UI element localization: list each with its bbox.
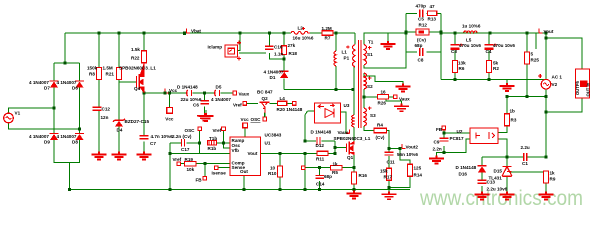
resistor R5 xyxy=(331,166,343,170)
svg-text:C1: C1 xyxy=(522,161,528,166)
optocoupler U2 xyxy=(470,128,498,144)
wire S2 top to ground xyxy=(364,73,403,84)
wire gate net vertical xyxy=(305,141,335,190)
svg-text:R4: R4 xyxy=(377,123,383,128)
svg-text:16: 16 xyxy=(381,90,387,95)
capacitor C16 xyxy=(265,46,274,49)
svg-text:D5: D5 xyxy=(216,85,222,90)
svg-text:BC 847: BC 847 xyxy=(257,89,273,94)
port R19 xyxy=(177,162,181,166)
svg-text:R3: R3 xyxy=(511,118,517,123)
wire secondary return xyxy=(441,79,546,81)
ground R17 xyxy=(382,191,397,199)
svg-text:10k: 10k xyxy=(187,167,195,172)
svg-text:1u 10%6: 1u 10%6 xyxy=(462,23,481,28)
plus S3 xyxy=(368,107,371,110)
svg-text:D15: D15 xyxy=(494,168,503,173)
svg-text:470u 10v6: 470u 10v6 xyxy=(459,43,481,48)
port Vaux1 xyxy=(233,91,237,95)
resistor R21 xyxy=(117,68,122,80)
wire bottom rail xyxy=(69,189,410,191)
wire snubber rails xyxy=(406,13,441,79)
resistor R9 xyxy=(544,171,549,183)
resistor R3 xyxy=(505,114,510,126)
diode D5 xyxy=(215,90,220,96)
port Vcc1 xyxy=(167,108,173,114)
wire clamp bottom xyxy=(239,53,284,59)
svg-text:T1: T1 xyxy=(368,39,374,44)
diode D11 xyxy=(317,137,320,145)
svg-text:1.1n: 1.1n xyxy=(274,51,283,56)
capacitor C7 xyxy=(140,136,149,139)
capacitor C11 xyxy=(385,152,394,155)
wire V1 to bridge top xyxy=(9,108,80,129)
winding P1 primary xyxy=(353,45,356,67)
wire R21 column xyxy=(118,33,120,152)
svg-text:Vfb: Vfb xyxy=(232,148,240,153)
winding T1b xyxy=(208,141,217,145)
svg-text:D 1N4148: D 1N4148 xyxy=(311,129,332,134)
wire FB port drop xyxy=(204,164,206,177)
winding L1 xyxy=(334,51,336,66)
svg-text:R16: R16 xyxy=(359,173,368,178)
svg-text:Iclamp: Iclamp xyxy=(208,44,223,49)
svg-text:Vbat: Vbat xyxy=(191,29,201,34)
wire R5 row xyxy=(305,167,354,169)
wire Sense row xyxy=(218,167,230,169)
wire R3 node xyxy=(498,80,546,133)
wire Comp row xyxy=(181,163,230,165)
port Vref2 xyxy=(222,127,226,131)
svg-text:R13: R13 xyxy=(428,17,437,22)
port FB xyxy=(203,176,207,180)
wire C4 R2 column xyxy=(488,33,490,80)
wire load node A xyxy=(482,156,546,158)
wire M2 source to Vcc rail xyxy=(144,87,233,93)
svg-text:R1b: R1b xyxy=(208,146,217,151)
capacitor C5 xyxy=(420,10,423,18)
svg-text:R26: R26 xyxy=(378,100,387,105)
svg-text:Isense: Isense xyxy=(212,170,227,175)
svg-text:1.5k: 1.5k xyxy=(131,47,140,52)
wire T1b row xyxy=(208,131,231,143)
port Vref xyxy=(243,102,247,106)
svg-text:V1: V1 xyxy=(15,111,21,116)
resistor R16 xyxy=(352,172,357,184)
svg-text:C11: C11 xyxy=(387,160,396,165)
transistor M2 xyxy=(137,63,145,94)
svg-text:Q4: Q4 xyxy=(134,86,141,91)
wire Vout to load xyxy=(546,33,582,69)
wire bridge mids xyxy=(54,88,80,134)
wire R25 column xyxy=(526,33,528,97)
svg-text:Vaux: Vaux xyxy=(399,96,410,101)
flag Vbat xyxy=(187,29,190,34)
wire R10 column xyxy=(279,153,281,189)
svg-text:4.7n 10%6: 4.7n 10%6 xyxy=(151,134,174,139)
resistor R12 xyxy=(416,29,429,35)
svg-text:150k: 150k xyxy=(87,66,98,71)
svg-text:(Cv): (Cv) xyxy=(376,135,385,140)
winding S3 xyxy=(364,108,367,126)
wire opto drop xyxy=(305,111,314,141)
diode D6 xyxy=(75,81,84,88)
ground TL431 xyxy=(500,192,515,200)
capacitor C3 xyxy=(451,45,460,49)
port OSC xyxy=(198,127,202,131)
svg-text:OSC: OSC xyxy=(251,117,262,122)
plus marks Iclamp xyxy=(237,41,241,61)
wire R18 column xyxy=(283,33,285,90)
resistor R2 xyxy=(487,61,492,73)
ground C13 xyxy=(475,192,490,200)
ground R8 xyxy=(92,152,107,160)
svg-text:FB: FB xyxy=(196,178,203,183)
wire Q2 emitter xyxy=(264,113,266,117)
wire Vaux tap xyxy=(364,96,394,98)
svg-text:Q2: Q2 xyxy=(262,96,269,101)
capacitor C8 xyxy=(420,48,423,56)
wire C7 drop xyxy=(143,93,145,152)
svg-text:D16: D16 xyxy=(459,172,468,177)
capacitor C12 xyxy=(93,107,102,110)
svg-text:C6: C6 xyxy=(193,102,199,107)
capacitor C6 xyxy=(200,101,209,104)
wire C3 R6 column xyxy=(454,33,456,80)
svg-text:TL431: TL431 xyxy=(489,175,503,180)
ground S2 xyxy=(396,84,411,92)
wire out rail right xyxy=(441,32,546,34)
wire R9 column xyxy=(545,183,547,192)
svg-text:Vcc: Vcc xyxy=(165,117,174,122)
tl431 D15 xyxy=(502,167,512,177)
port Vcc2 xyxy=(293,102,297,106)
resistor R26 xyxy=(378,95,389,99)
wire P1 bottom to P2 xyxy=(353,67,355,141)
resistor R6 xyxy=(453,61,458,73)
wire TL431 column xyxy=(506,157,508,192)
wire C6 drop xyxy=(204,93,206,113)
ground C6 xyxy=(197,113,212,121)
transformer core xyxy=(358,40,361,128)
plus C4 xyxy=(493,43,496,46)
svg-text:V2: V2 xyxy=(552,82,558,87)
svg-text:R17: R17 xyxy=(384,175,393,180)
resistor R13 xyxy=(428,11,437,15)
ground top mid xyxy=(199,110,214,121)
resistor R10 xyxy=(278,166,283,177)
svg-text:R20 1N4148: R20 1N4148 xyxy=(277,107,303,112)
wire FB2 port drop xyxy=(443,130,445,153)
diode D10 xyxy=(187,90,192,96)
wire S3 bottom to R4 xyxy=(364,126,389,149)
winding S2 xyxy=(364,73,367,89)
zener D4 xyxy=(113,119,125,127)
svg-text:Out: Out xyxy=(240,169,248,174)
resistor R19 xyxy=(185,162,197,166)
svg-text:R14: R14 xyxy=(414,172,423,177)
svg-text:L1: L1 xyxy=(342,49,348,54)
svg-text:R12: R12 xyxy=(419,22,428,27)
wire Vout drive row xyxy=(261,152,336,154)
diode D7 xyxy=(50,81,59,88)
wire L1 column xyxy=(335,33,337,90)
diode D1 xyxy=(280,71,289,78)
winding S1 xyxy=(364,45,367,65)
svg-text:22u 10%6: 22u 10%6 xyxy=(181,97,202,102)
svg-text:D1: D1 xyxy=(270,75,276,80)
wire Q2 collector to R20 xyxy=(270,102,293,104)
wire Vfb row xyxy=(170,152,230,154)
ground C7 xyxy=(137,152,152,160)
svg-text:BZD27-C15: BZD27-C15 xyxy=(125,119,150,124)
port OSC2 xyxy=(263,117,267,121)
wire R16 column xyxy=(353,168,355,190)
svg-text:470p: 470p xyxy=(416,3,427,8)
svg-text:UC3843: UC3843 xyxy=(265,133,282,138)
resistor R14 xyxy=(408,164,413,176)
svg-text:470u 10v6: 470u 10v6 xyxy=(493,43,515,48)
ground R9 xyxy=(539,192,554,200)
ground R21 xyxy=(112,152,127,160)
resistor R11 xyxy=(317,151,328,155)
svg-text:C7: C7 xyxy=(150,141,156,146)
wire OSC2 stub xyxy=(264,113,266,118)
wire D11 row xyxy=(305,140,335,142)
svg-text:R19: R19 xyxy=(185,157,194,162)
ammeter Iclamp xyxy=(225,45,238,57)
svg-text:4 1N4007: 4 1N4007 xyxy=(29,134,49,139)
wire top rail mid xyxy=(333,32,355,34)
inductor L3 xyxy=(464,31,478,33)
load block xyxy=(576,69,590,98)
wire IC gnd stub xyxy=(243,176,245,190)
svg-text:S2: S2 xyxy=(367,84,373,89)
svg-text:C5: C5 xyxy=(418,17,424,22)
wire Vcc port drop xyxy=(169,93,171,108)
wire S1 bottom loop xyxy=(364,54,406,68)
wire clamp to primary xyxy=(284,89,353,91)
svg-text:FB: FB xyxy=(436,127,443,132)
wire opto emitter flag xyxy=(341,112,347,133)
svg-text:4 1N4007: 4 1N4007 xyxy=(29,80,49,85)
svg-text:OUT In: OUT In xyxy=(586,82,591,96)
svg-text:Q1: Q1 xyxy=(347,155,354,160)
svg-text:R8: R8 xyxy=(89,71,95,76)
svg-text:C4: C4 xyxy=(486,49,492,54)
wire U2 right lower xyxy=(498,139,507,157)
svg-text:L5: L5 xyxy=(466,38,472,43)
plus S2 xyxy=(368,76,371,79)
diode D16 xyxy=(478,166,487,173)
resistor R22 xyxy=(142,51,147,63)
svg-text:Vref: Vref xyxy=(173,157,182,162)
svg-text:4 1N4007: 4 1N4007 xyxy=(264,69,284,74)
ground aux xyxy=(394,103,409,111)
node Vbat anchor xyxy=(183,31,186,34)
resistor R4 xyxy=(374,128,387,132)
wire sense rail join xyxy=(388,188,390,192)
svg-text:4 1N4007: 4 1N4007 xyxy=(57,134,77,139)
svg-text:5: 5 xyxy=(531,51,534,56)
svg-text:D8: D8 xyxy=(72,139,78,144)
svg-text:U3: U3 xyxy=(344,103,350,108)
ground C9 xyxy=(429,156,444,164)
svg-text:AC 1: AC 1 xyxy=(552,75,563,80)
svg-text:4 1N4007: 4 1N4007 xyxy=(211,97,231,102)
svg-text:Vout: Vout xyxy=(248,151,258,156)
svg-text:D12: D12 xyxy=(316,143,325,148)
wire C11 column xyxy=(388,149,390,188)
winding P2 aux xyxy=(352,115,354,127)
port FB2 xyxy=(442,126,446,130)
resistor R25 xyxy=(525,52,530,64)
svg-text:2.2u 10v6: 2.2u 10v6 xyxy=(487,187,508,192)
resistor R8 xyxy=(97,68,102,80)
wire Q1 gate xyxy=(335,147,347,149)
wire gate M2 xyxy=(119,81,137,83)
plus P1 xyxy=(346,45,349,48)
flag Vcc2b xyxy=(346,129,349,133)
flag Vcc xyxy=(165,89,168,94)
wire P1 top xyxy=(354,33,356,45)
port Isense xyxy=(214,166,218,170)
svg-text:C16: C16 xyxy=(274,45,283,50)
svg-text:Vaux: Vaux xyxy=(338,130,349,135)
resistor R18 xyxy=(282,46,287,55)
port Isense out xyxy=(301,166,305,170)
svg-text:Vref: Vref xyxy=(213,128,222,133)
svg-text:R11: R11 xyxy=(316,156,325,161)
svg-text:Vref: Vref xyxy=(233,103,242,108)
svg-text:D6: D6 xyxy=(72,86,78,91)
wire Q1 source xyxy=(353,155,355,168)
svg-text:R5: R5 xyxy=(332,170,338,175)
capacitor C13 xyxy=(478,180,487,183)
svg-text:S3: S3 xyxy=(370,113,376,118)
svg-text:1k: 1k xyxy=(333,161,339,166)
svg-text:125: 125 xyxy=(414,165,422,170)
plus C3 xyxy=(459,43,462,46)
svg-text:2.2n (Cv): 2.2n (Cv) xyxy=(172,134,192,139)
svg-text:R18: R18 xyxy=(289,51,298,56)
capacitor C4 xyxy=(485,45,494,49)
capacitor C17 xyxy=(182,139,185,147)
port Vcc top xyxy=(243,123,248,128)
svg-text:68p: 68p xyxy=(415,43,423,48)
svg-text:(Cv): (Cv) xyxy=(417,37,426,42)
capacitor C9 xyxy=(440,138,449,141)
diode D9 xyxy=(50,134,59,141)
svg-text:Vaux: Vaux xyxy=(239,91,250,96)
svg-text:1b: 1b xyxy=(510,108,516,113)
svg-text:R25: R25 xyxy=(531,57,540,62)
svg-text:OUTPh: OUTPh xyxy=(575,80,580,95)
ground R16 xyxy=(347,191,362,199)
capacitor C1 series xyxy=(524,153,527,161)
svg-text:15k: 15k xyxy=(380,168,388,173)
svg-text:C8: C8 xyxy=(418,58,424,63)
wire R8 column xyxy=(98,33,100,152)
svg-text:SPB02N60C3_L1: SPB02N60C3_L1 xyxy=(119,65,156,70)
wire bridge top feed xyxy=(54,33,80,81)
wire S2 S3 tap xyxy=(363,89,365,108)
svg-text:L2: L2 xyxy=(298,26,304,31)
svg-text:D7: D7 xyxy=(44,86,50,91)
svg-text:C12: C12 xyxy=(102,107,111,112)
svg-text:Vout: Vout xyxy=(544,29,554,34)
svg-text:R10: R10 xyxy=(268,171,277,176)
svg-text:C9: C9 xyxy=(434,139,440,144)
svg-text:5k: 5k xyxy=(493,61,499,66)
svg-text:S1: S1 xyxy=(367,52,373,57)
svg-text:R6: R6 xyxy=(459,66,465,71)
svg-text:Vcc: Vcc xyxy=(241,117,250,122)
svg-text:C14: C14 xyxy=(316,181,325,186)
inductor L2 xyxy=(291,31,310,34)
flag Vout xyxy=(539,29,542,34)
plus V2 xyxy=(538,74,542,78)
svg-text:1k: 1k xyxy=(550,170,556,175)
diode D8 xyxy=(75,134,84,141)
wire R14 column xyxy=(389,149,410,188)
svg-text:D 1N4148: D 1N4148 xyxy=(456,165,477,170)
wire S1 top to out rail xyxy=(364,33,406,45)
wire C16 column xyxy=(268,33,270,46)
wire sense node xyxy=(389,148,400,150)
svg-text:2.2u: 2.2u xyxy=(521,145,530,150)
svg-text:2.2n: 2.2n xyxy=(433,147,442,152)
svg-text:47: 47 xyxy=(430,4,436,9)
wire OSC net xyxy=(170,131,200,190)
svg-text:R21: R21 xyxy=(106,71,115,76)
wire IC vcc stub xyxy=(244,129,246,137)
svg-text:R2: R2 xyxy=(493,66,499,71)
wire top rail left xyxy=(65,32,322,34)
svg-text:T1b: T1b xyxy=(209,136,217,141)
svg-text:D 1N4148: D 1N4148 xyxy=(177,85,198,90)
wire Vref to Q2 base xyxy=(247,102,259,104)
svg-text:U2: U2 xyxy=(457,129,463,134)
svg-text:U1: U1 xyxy=(265,140,271,145)
transistor Q2 xyxy=(259,102,269,113)
svg-text:R7: R7 xyxy=(325,36,331,41)
svg-text:SPB02N60C3_L1: SPB02N60C3_L1 xyxy=(334,136,371,141)
resistor R17 xyxy=(387,168,392,180)
wire Iclamp drop xyxy=(238,33,241,51)
svg-text:1.5M: 1.5M xyxy=(103,66,113,71)
svg-text:12n: 12n xyxy=(101,115,109,120)
svg-text:L4: L4 xyxy=(280,96,286,101)
svg-text:27k: 27k xyxy=(288,43,296,48)
svg-text:C3: C3 xyxy=(451,49,457,54)
svg-text:13k: 13k xyxy=(458,61,466,66)
resistor R20 xyxy=(278,101,287,105)
svg-text:68p: 68p xyxy=(324,174,332,179)
wire V2 column xyxy=(545,38,547,157)
wire D16 column xyxy=(481,157,483,192)
optocoupler U3 xyxy=(315,103,341,123)
wire TL431 ref xyxy=(509,171,546,173)
svg-text:56n 10%6: 56n 10%6 xyxy=(397,152,418,157)
svg-text:D9: D9 xyxy=(44,139,50,144)
svg-text:10: 10 xyxy=(270,165,276,170)
svg-text:D4: D4 xyxy=(117,128,123,133)
svg-text:R9: R9 xyxy=(550,177,556,182)
wire aux ground stub xyxy=(386,97,402,104)
resistor R7 xyxy=(322,31,333,35)
port Vaux2 xyxy=(394,95,398,99)
